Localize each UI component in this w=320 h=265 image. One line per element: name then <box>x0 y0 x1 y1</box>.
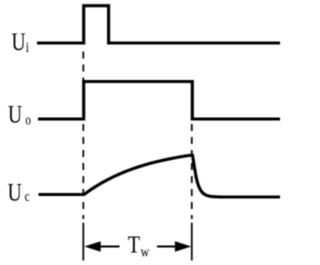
wire Ui waveform (input pulse) <box>37 6 280 43</box>
wire Uo waveform (output pulse) <box>38 82 280 120</box>
node t1 dashed line upper (left, x=83.3) <box>82 52 84 82</box>
svg-text:T: T <box>128 231 141 258</box>
wire Uc waveform (capacitor charge/discharge) <box>39 155 281 197</box>
arrow right (Tw dimension) <box>157 246 180 248</box>
label Uo <box>8 100 31 128</box>
label Ui <box>12 27 30 55</box>
svg-text:U: U <box>12 27 26 55</box>
svg-text:w: w <box>141 243 150 259</box>
svg-text:c: c <box>25 188 30 205</box>
node t2 solid tick bottom <box>191 223 193 261</box>
arrow left (Tw dimension) <box>97 246 120 248</box>
svg-text:i: i <box>26 38 29 55</box>
label Uc <box>8 178 30 206</box>
node t2 dashed line (right, x=191.8) <box>191 124 193 219</box>
svg-text:U: U <box>8 178 22 206</box>
label Tw <box>128 231 150 260</box>
svg-text:o: o <box>25 111 31 128</box>
svg-text:U: U <box>8 100 22 128</box>
node t1 dashed line lower (left, x=83.3) <box>82 124 84 219</box>
node t1 solid tick bottom <box>82 223 84 261</box>
